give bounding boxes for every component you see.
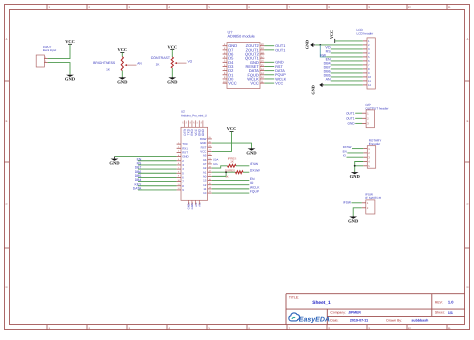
ground GND (LCD pin12, rotated) <box>310 83 324 95</box>
connector INPUT Buck Input <box>36 45 56 67</box>
Arduino left pin RX1 <box>177 145 189 150</box>
Arduino bottom pin A4 <box>195 200 198 206</box>
wire GND to LCD pin2 <box>315 44 363 46</box>
power flag VCC (brightness) <box>118 47 128 54</box>
wire net DATA to Arduino pin 9 <box>138 189 177 191</box>
svg-text:GND: GND <box>65 77 76 82</box>
Arduino left pin 4 <box>177 166 185 171</box>
svg-text:VCC: VCC <box>227 126 237 131</box>
wire AD9850 pin to net WCLK <box>264 78 274 80</box>
net label SCL (Arduino A7) <box>213 163 219 166</box>
wire Arduino pin 13 to net EN <box>212 180 250 182</box>
wire net DB6 to Arduino pin 5 <box>138 172 177 174</box>
title block author value subbbash <box>411 319 428 323</box>
AD9850 right pin 17 QOUT1 <box>245 55 264 60</box>
net label WCLK (Arduino right) <box>250 185 260 189</box>
LCD header pin 6 <box>363 59 370 63</box>
LCD header pin 8 <box>363 67 370 71</box>
wire AD9850 pin to net DATA <box>264 70 274 72</box>
wire net OUT1 to OUTPUT header pin 2 <box>355 117 362 119</box>
net label DB5 (LCD) <box>324 74 331 78</box>
svg-text:EasyEDA: EasyEDA <box>299 317 330 324</box>
net label KEY (Arduino left) <box>135 182 143 186</box>
title block TITLE label <box>289 296 299 300</box>
Arduino right pin A6 <box>203 157 212 162</box>
svg-text:SCL: SCL <box>213 163 219 166</box>
Arduino right pin 11 <box>203 186 211 191</box>
title block <box>286 294 465 325</box>
svg-text:D: D <box>467 286 469 289</box>
net label OUT1 (OUTPUT header) <box>346 116 355 120</box>
svg-text:DXRES: DXRES <box>225 169 235 173</box>
net label DB6 (LCD) <box>324 70 331 74</box>
Arduino bottom pin A5 <box>198 200 201 206</box>
ground GND (ROTARY) <box>350 172 361 179</box>
svg-text:BRIGHTNESS: BRIGHTNESS <box>93 61 116 65</box>
net label EN (LCD) <box>326 58 331 62</box>
wire net DXSW to ROTARY pin 1 <box>352 148 363 150</box>
svg-text:CONTRAST: CONTRAST <box>151 56 171 60</box>
wire net IO to ROTARY pin 3 <box>347 156 364 158</box>
net label VO (LCD) <box>325 46 330 50</box>
net label RS (LCD) <box>326 50 332 54</box>
svg-text:VCC: VCC <box>329 30 334 39</box>
svg-text:1/1: 1/1 <box>448 311 453 315</box>
net label OUT1 (AD9850) <box>275 48 285 52</box>
svg-text:VCC: VCC <box>228 81 237 86</box>
IC U? AD9850 module <box>227 31 260 89</box>
wire net DB7 to LCD pin 8 <box>331 68 363 70</box>
wire net KEY to Arduino pin 8 <box>138 185 177 187</box>
net label RS (Arduino left) <box>137 162 142 166</box>
svg-text:VCC: VCC <box>65 39 75 44</box>
Arduino right pin GND <box>200 140 212 145</box>
wire GND branch to LCD pin5 (teal) <box>320 45 326 57</box>
wire VCC to Arduino VCC pin <box>212 133 232 151</box>
net label OUT1 (AD9850) <box>275 44 285 48</box>
net label DB6 (Arduino left) <box>135 170 142 174</box>
net label EN (Arduino left) <box>137 157 142 161</box>
Arduino right pin A7 <box>203 161 212 166</box>
AD9850 left pin 4 D5 <box>223 55 234 60</box>
svg-text:D: D <box>6 286 8 289</box>
wire IFRES to net IFSW <box>236 165 249 167</box>
Arduino left pin 2 <box>177 158 185 163</box>
net label AN (brightness wiper) <box>137 61 142 65</box>
title block date value 2019-07-11 <box>350 319 368 323</box>
connector O/P OUTPUT header <box>365 103 388 128</box>
Arduino top pin RXD <box>189 120 194 135</box>
title block Company label <box>330 311 346 315</box>
net label DB4 (Arduino left) <box>135 178 142 182</box>
Arduino left pin 8 <box>177 183 185 188</box>
svg-text:A: A <box>467 38 469 41</box>
svg-text:Arduino_Pro_mini_U: Arduino_Pro_mini_U <box>181 114 207 118</box>
svg-text:LCD header: LCD header <box>357 32 374 36</box>
svg-text:24: 24 <box>185 122 188 124</box>
svg-text:IF SWITCH: IF SWITCH <box>365 196 381 200</box>
svg-text:C: C <box>6 203 8 206</box>
title block Sheet label <box>435 311 445 315</box>
net label RW (LCD pin5) <box>320 54 326 58</box>
net label RST (AD9850) <box>275 65 283 69</box>
OUTPUT header pin 2 <box>362 117 369 121</box>
svg-text:GND: GND <box>201 128 205 136</box>
Arduino top pin VCC <box>193 120 198 135</box>
svg-text:GND: GND <box>246 150 257 155</box>
wire net EN to Arduino pin 2 <box>138 160 177 162</box>
wire Arduino pin 12 to net IO <box>212 184 250 186</box>
wire net RS to Arduino pin 3 <box>138 164 177 166</box>
AD9850 left pin 10 VCC <box>223 80 237 85</box>
svg-text:OUT1: OUT1 <box>346 116 355 120</box>
AD9850 left pin 3 D6 <box>223 51 234 56</box>
net label AN (LCD) <box>326 78 331 82</box>
Arduino left pin GND <box>177 154 189 159</box>
wire AD9850 pin to net FQUP <box>264 74 274 76</box>
net label EN (Arduino right) <box>250 177 255 181</box>
wire AD9850 pin to net GND <box>264 61 274 63</box>
AD9850 left pin 7 D2 <box>223 68 234 73</box>
Arduino right pin A2 <box>203 165 212 170</box>
junction on GND wire <box>319 44 321 46</box>
net label DB7 (Arduino left) <box>135 166 142 170</box>
Arduino bottom pin GND <box>187 200 190 209</box>
Arduino right pin 13 <box>203 178 212 183</box>
net label DB5 (Arduino left) <box>135 174 142 178</box>
net label IO (Arduino right) <box>250 181 254 185</box>
wire Arduino A0 joining A1 wire <box>212 172 226 176</box>
wire net RS to LCD pin 4 <box>331 52 363 54</box>
Arduino top pin GND <box>200 120 205 136</box>
wire net EN to LCD pin 6 <box>331 60 363 62</box>
net label GND (OUTPUT header) <box>348 122 356 126</box>
AD9850 right pin 19 ZOUT1 <box>246 47 265 52</box>
svg-text:VCC: VCC <box>118 47 128 52</box>
wire net DB4 to LCD pin 7 <box>331 64 363 66</box>
ground GND (Arduino right) <box>246 148 257 155</box>
AD9850 left pin 2 D7 <box>223 47 234 52</box>
wire DXRES to net DXSW <box>243 171 249 173</box>
svg-text:27: 27 <box>196 122 199 124</box>
svg-text:subbbash: subbbash <box>411 319 428 323</box>
title block sheet value 1/1 <box>448 311 453 315</box>
LCD header pin 10 <box>363 75 372 79</box>
svg-text:GND: GND <box>117 79 128 84</box>
svg-text:SDA: SDA <box>213 159 219 162</box>
power flag VCC (LCD pin1, rotated) <box>329 30 335 43</box>
wire net DB5 to LCD pin 10 <box>331 76 363 78</box>
svg-text:IFSW: IFSW <box>250 162 259 166</box>
AD9850 left pin 6 D3 <box>223 64 234 69</box>
ground GND (input) <box>65 74 76 81</box>
net label FQUP (AD9850) <box>275 73 286 77</box>
power flag VCC (Arduino right) <box>227 126 237 133</box>
AD9850 left pin 5 D4 <box>223 60 234 65</box>
wire net DB7 to Arduino pin 4 <box>138 168 177 170</box>
ROTARY pin 4 <box>363 160 370 164</box>
AD9850 right pin 15 RESET <box>245 64 264 69</box>
title block company value JIPMER <box>348 311 361 315</box>
connector IFSW IF SWITCH <box>365 192 381 214</box>
wire IF SWITCH pin 2 to ground <box>353 208 362 216</box>
svg-text:B: B <box>6 120 8 123</box>
Arduino right pin RST <box>201 144 212 149</box>
title block Drawn By label <box>386 319 402 323</box>
svg-text:Sheet:: Sheet: <box>435 311 445 315</box>
IF SWITCH pin 2 <box>362 206 369 210</box>
svg-text:Drawn By:: Drawn By: <box>386 319 402 323</box>
svg-text:Buck Input: Buck Input <box>43 48 56 52</box>
net label DB4 (LCD) <box>324 62 331 66</box>
wire net GND to OUTPUT header pin 3 <box>355 122 362 124</box>
LCD header pin 4 <box>363 51 370 55</box>
wire Arduino GND (left) to ground <box>115 156 177 158</box>
svg-text:OUT1: OUT1 <box>275 48 285 52</box>
svg-text:23: 23 <box>182 122 185 124</box>
net label WCLK (AD9850) <box>275 77 286 81</box>
wire ROTARY pins 4,5 to ground <box>355 162 364 172</box>
Arduino top pin TXD <box>185 120 190 135</box>
svg-text:JIPMER: JIPMER <box>348 311 361 315</box>
wire net DB6 to LCD pin 9 <box>331 72 363 74</box>
connector ROTARY Encoder <box>367 139 381 169</box>
wire net VO to LCD pin 3 <box>331 48 363 50</box>
svg-text:Date:: Date: <box>330 319 338 323</box>
svg-text:1.0: 1.0 <box>448 300 454 305</box>
resistor IFRES 1K <box>228 156 237 167</box>
svg-text:VCC: VCC <box>275 81 283 85</box>
LCD header pin 3 <box>363 47 370 51</box>
wire Arduino A2 to resistor IFRES <box>212 166 228 168</box>
power flag VCC (contrast) <box>168 44 178 51</box>
title block REV label <box>435 301 443 305</box>
svg-text:IFSW: IFSW <box>343 201 351 205</box>
title block sheet name Sheet_1 <box>312 300 331 306</box>
potentiometer BRIGHTNESS 1K <box>93 54 136 77</box>
AD9850 left pin 8 D1 <box>223 72 234 77</box>
AD9850 right pin 14 DATA <box>249 68 265 73</box>
svg-text:10: 10 <box>203 191 207 195</box>
AD9850 right pin 18 QOUT2 <box>245 51 264 56</box>
svg-text:GND: GND <box>109 161 120 166</box>
svg-text:26: 26 <box>193 122 196 124</box>
net label DXSW (ROTARY) <box>343 145 352 149</box>
LCD header pin 1 <box>363 39 370 43</box>
LCD header pin 5 <box>363 55 370 59</box>
net label FQUP (Arduino right) <box>250 189 260 193</box>
wire net OUT1 to OUTPUT header pin 1 <box>355 112 362 114</box>
junction A0/A1 <box>225 171 227 173</box>
title block revision value 1.0 <box>448 300 454 305</box>
svg-text:DATA: DATA <box>133 187 142 191</box>
AD9850 left pin 1 GND <box>223 43 238 48</box>
svg-text:GND: GND <box>191 203 194 209</box>
Arduino bottom pin GND <box>191 200 194 209</box>
svg-text:DXSW: DXSW <box>250 169 261 173</box>
ROTARY pin 2 <box>363 151 370 155</box>
svg-text:OUT1: OUT1 <box>346 111 355 115</box>
wire net DB4 to Arduino pin 7 <box>138 181 177 183</box>
potentiometer CONTRAST 1K <box>151 51 187 77</box>
Arduino right pin RAW <box>200 136 212 141</box>
net label DATA (Arduino left) <box>133 187 142 191</box>
svg-text:B: B <box>467 120 469 123</box>
net label IFSW (IF SWITCH) <box>343 201 351 205</box>
net label IO (ROTARY) <box>343 154 347 158</box>
ground GND (Arduino left) <box>109 157 120 166</box>
net label SDA (Arduino A6) <box>213 159 219 162</box>
svg-text:C: C <box>467 203 469 206</box>
net label DATA (AD9850) <box>275 69 285 73</box>
svg-text:1K: 1K <box>230 160 234 164</box>
ground GND (LCD pin2, rotated) <box>305 40 316 49</box>
ROTARY pin 3 <box>363 155 370 159</box>
AD9850 right pin 16 GND <box>250 60 264 65</box>
wire AD9850 pin to net VCC <box>264 82 274 84</box>
LCD header pin 7 <box>363 63 370 67</box>
svg-text:VCC: VCC <box>168 44 178 49</box>
EasyEDA logo <box>289 313 330 324</box>
IC U2 Arduino_Pro_mini_U <box>181 110 208 201</box>
svg-text:RS: RS <box>326 50 332 54</box>
svg-text:2019-07-11: 2019-07-11 <box>350 319 368 323</box>
wire INPUT pin1 to VCC <box>48 46 70 59</box>
Arduino left pin 3 <box>177 162 185 167</box>
AD9850 right pin 13 FQUD <box>247 72 264 77</box>
ground GND (IF SWITCH) <box>348 216 359 223</box>
svg-text:A4: A4 <box>195 203 198 207</box>
Arduino right pin A0 <box>203 174 212 179</box>
net label IFSW (resistor) <box>250 162 259 166</box>
wire net DB5 to Arduino pin 6 <box>138 176 177 178</box>
svg-text:Sheet_1: Sheet_1 <box>312 300 331 306</box>
svg-text:25: 25 <box>189 122 192 124</box>
LCD header pin 11 <box>363 79 372 83</box>
net label DXSW (resistor) <box>250 169 261 173</box>
Arduino top pin DTR <box>182 120 187 135</box>
svg-text:REV:: REV: <box>435 301 443 305</box>
ROTARY pin 5 <box>363 164 370 168</box>
svg-text:AN: AN <box>326 78 331 82</box>
IF SWITCH pin 1 <box>362 201 369 205</box>
svg-text:TITLE:: TITLE: <box>289 296 299 300</box>
svg-text:A: A <box>6 38 8 41</box>
Arduino left pin 7 <box>177 179 185 184</box>
OUTPUT header pin 1 <box>362 111 369 115</box>
junction ROTARY pin5 gnd wire <box>354 165 356 167</box>
svg-text:FQUP: FQUP <box>250 189 260 193</box>
Arduino left pin 6 <box>177 175 185 180</box>
ground GND (contrast) <box>167 77 178 84</box>
Arduino top pin GND <box>196 120 201 136</box>
net label GND (AD9850) <box>275 61 284 65</box>
svg-text:12: 12 <box>368 83 372 87</box>
Arduino left pin 9 <box>177 187 185 192</box>
net label VO (contrast wiper) <box>188 59 193 63</box>
wire Arduino GND pin to ground (right) <box>212 143 252 148</box>
svg-text:GND: GND <box>188 203 191 209</box>
wire Arduino A1 to resistor DXRES <box>212 171 236 173</box>
power flag VCC (input) <box>65 39 75 46</box>
Arduino right pin 10 <box>203 190 212 195</box>
Arduino left pin TX0 <box>177 141 188 146</box>
svg-text:VO: VO <box>188 59 193 63</box>
wire net EN to ROTARY pin 2 <box>347 152 363 154</box>
wire AD9850 pin to net RST <box>264 65 274 67</box>
wire Arduino pin 11 to net WCLK <box>212 188 250 190</box>
svg-text:AD9850 module: AD9850 module <box>228 35 255 39</box>
svg-text:28: 28 <box>200 122 203 124</box>
Arduino right pin A3 <box>203 153 212 158</box>
AD9850 right pin 12 WCLK <box>247 76 264 81</box>
wire GND to LCD pin12 <box>324 84 363 86</box>
wire to LCD pin5 <box>327 56 363 58</box>
wire INPUT pin2 to GND <box>48 63 70 75</box>
wire Arduino pin 10 to net FQUP <box>212 192 250 194</box>
LCD header pin 2 <box>363 43 370 47</box>
wire net AN to LCD pin 11 <box>331 80 363 82</box>
svg-text:GND: GND <box>167 79 178 84</box>
svg-text:GND: GND <box>350 174 361 179</box>
svg-text:GND: GND <box>310 85 315 94</box>
svg-text:GND: GND <box>348 219 359 224</box>
wire net IFSW to IF SWITCH pin 1 <box>352 202 362 204</box>
title block Date label <box>330 319 338 323</box>
svg-text:1K: 1K <box>225 176 228 179</box>
AD9850 left pin 9 D0 <box>223 76 234 81</box>
Arduino left pin RST <box>177 150 189 155</box>
Arduino right pin 12 <box>203 182 212 187</box>
Arduino right pin A1 <box>203 169 212 174</box>
net label EN (ROTARY) <box>343 149 347 153</box>
svg-text:AN: AN <box>137 61 142 65</box>
resistor DXRES 1K <box>225 169 243 179</box>
svg-text:VCC: VCC <box>250 81 259 86</box>
wire AD9850 pin to net OUT1 <box>264 49 274 51</box>
connector U? LCD header <box>357 28 376 89</box>
ROTARY pin 1 <box>363 147 370 151</box>
net label OUT1 (OUTPUT header) <box>346 111 355 115</box>
LCD header pin 12 <box>363 83 372 87</box>
net label DB7 (LCD) <box>324 66 331 70</box>
svg-text:Company:: Company: <box>330 311 346 315</box>
LCD header pin 9 <box>363 71 370 75</box>
wire VCC to LCD pin1 <box>335 40 363 42</box>
wire AD9850 pin to net OUT1 <box>264 45 274 47</box>
Arduino left pin 5 <box>177 170 185 175</box>
Arduino right pin VCC <box>200 149 212 154</box>
svg-text:GND: GND <box>305 40 310 49</box>
net label VCC (AD9850) <box>275 81 283 85</box>
ground GND (brightness) <box>117 77 128 84</box>
svg-text:GND: GND <box>348 122 356 126</box>
svg-text:A5: A5 <box>198 203 201 207</box>
OUTPUT header pin 3 <box>362 122 369 126</box>
AD9850 right pin 11 VCC <box>250 80 264 85</box>
AD9850 right pin 20 ZOUT2 <box>246 43 265 48</box>
